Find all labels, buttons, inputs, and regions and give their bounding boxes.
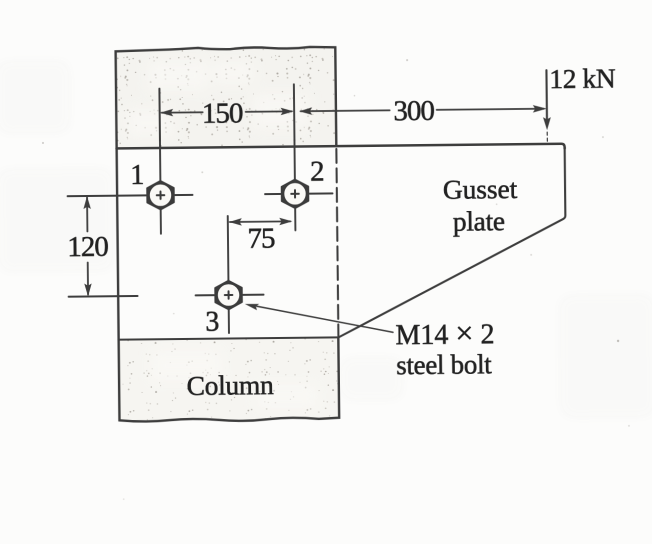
dimension line 120: [86, 197, 88, 231]
svg-text:12 kN: 12 kN: [549, 62, 616, 94]
dimension line 150: [162, 111, 203, 113]
svg-text:M14 × 2: M14 × 2: [395, 314, 494, 351]
bolt 3 (hex nut): [215, 280, 243, 310]
faint scan smudges: [0, 56, 652, 423]
column lower section (stippled): [119, 337, 340, 422]
white patches in column texture: [126, 59, 317, 410]
dimension 120: top extension line: [68, 194, 146, 197]
dimension 75: extension line above bolt 3: [227, 216, 230, 280]
dimension 120: bottom extension line: [69, 295, 138, 298]
leader line to M14 bolt label: [257, 305, 393, 334]
bolt 3 crosshair: [227, 279, 229, 281]
bolt 1 (hex nut): [147, 180, 175, 209]
svg-text:steel bolt: steel bolt: [396, 349, 492, 380]
svg-text:2: 2: [310, 156, 325, 188]
dimension 150: extension line above bolt 1: [158, 89, 161, 141]
column hidden right edge (dashed): [336, 149, 338, 336]
svg-text:75: 75: [247, 223, 275, 255]
faint scan specks: [41, 57, 630, 501]
svg-text:120: 120: [67, 231, 108, 263]
svg-text:Gusset: Gusset: [443, 173, 518, 205]
svg-text:3: 3: [205, 307, 219, 338]
bolt 1 crosshair: [158, 89, 161, 180]
dimension 150/300: extension line above bolt 2: [293, 84, 296, 140]
gusset plate outline: [117, 144, 565, 153]
svg-text:150: 150: [202, 97, 243, 129]
svg-text:1: 1: [130, 160, 144, 191]
column left edge through gusset region: [117, 148, 119, 339]
dimension line 75: [230, 220, 290, 223]
dimension line 300: [301, 109, 390, 112]
dimension 75: extension line below bolt 2: [294, 209, 296, 230]
svg-text:300: 300: [393, 95, 434, 127]
svg-text:Column: Column: [186, 369, 274, 401]
column upper section (stippled): [116, 46, 337, 148]
bolt 2 crosshair: [293, 140, 295, 178]
svg-text:plate: plate: [453, 205, 505, 237]
12 kN force arrow: [545, 70, 548, 118]
bolt 2 (hex nut): [281, 179, 309, 208]
